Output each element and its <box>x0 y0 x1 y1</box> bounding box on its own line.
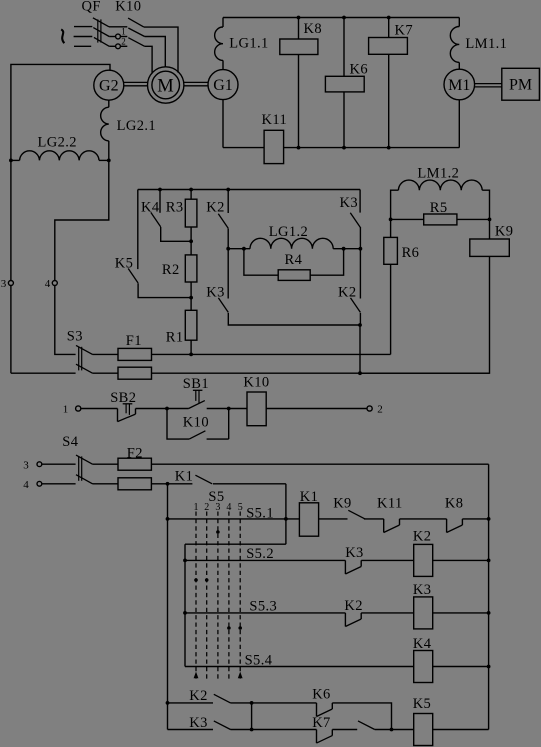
AC supply tilde symbol <box>61 29 64 43</box>
node left rail top <box>166 482 170 486</box>
svg-text:K3: K3 <box>206 285 225 301</box>
contact K3 bottom <box>168 715 317 731</box>
svg-text:LM1.1: LM1.1 <box>465 36 507 52</box>
node R3 top <box>189 188 193 192</box>
svg-text:K4: K4 <box>141 199 160 215</box>
relay coil K10 <box>243 375 269 426</box>
node S5.2 right rail <box>487 559 491 563</box>
svg-text:3: 3 <box>215 502 220 513</box>
svg-text:LM1.2: LM1.2 <box>417 165 459 181</box>
svg-text:4: 4 <box>226 502 231 513</box>
load machine PM <box>502 68 540 100</box>
inductor LM1.1 <box>450 18 507 70</box>
svg-text:K2: K2 <box>206 199 225 215</box>
terminal 1 tap on phase L2 <box>109 27 127 39</box>
contactor K11 <box>262 112 288 164</box>
svg-text:G2: G2 <box>99 78 119 95</box>
fuse F2 lower <box>93 478 193 490</box>
svg-text:S3: S3 <box>67 329 83 345</box>
inductor LG1.2 <box>228 224 360 249</box>
drive motor M <box>148 67 184 103</box>
node K2 top <box>226 188 230 192</box>
svg-text:S5.3: S5.3 <box>249 598 277 614</box>
svg-text:K2: K2 <box>344 598 363 614</box>
svg-text:K9: K9 <box>333 496 352 512</box>
pushbutton SB2 <box>110 390 136 422</box>
node R4 right <box>342 247 346 251</box>
svg-text:K4: K4 <box>413 636 432 652</box>
svg-text:M1: M1 <box>448 77 470 94</box>
node K10 branch right <box>227 407 231 411</box>
svg-text:K1: K1 <box>175 468 194 484</box>
svg-text:3: 3 <box>23 459 29 471</box>
fuse F1 lower <box>11 333 490 379</box>
svg-text:R6: R6 <box>402 245 420 261</box>
svg-text:K8: K8 <box>445 496 464 512</box>
wire terminal 4 to switch S3 <box>55 286 76 355</box>
S5 left bracket <box>184 544 186 666</box>
contactor K7 <box>369 18 413 148</box>
wire SB1 to K10 coil <box>207 408 247 410</box>
svg-text:LG1.2: LG1.2 <box>269 224 308 240</box>
svg-text:S5.1: S5.1 <box>246 505 274 521</box>
svg-text:K11: K11 <box>377 496 403 512</box>
terminal 2 control <box>367 404 383 416</box>
node top bus K6 <box>342 16 346 20</box>
wire terminal 3 to S4 <box>42 463 76 465</box>
contactor K8 <box>280 18 322 148</box>
svg-text:LG2.2: LG2.2 <box>38 134 77 150</box>
relay coil K4 <box>413 636 489 682</box>
contact K3 lower-left <box>206 249 360 325</box>
node K4 top <box>158 188 162 192</box>
wire S5 feed to bracket <box>185 543 286 545</box>
svg-text:F2: F2 <box>127 445 143 461</box>
link K2 row to K3 row <box>251 703 253 730</box>
row S5.3 wire <box>185 598 345 614</box>
wire G2 top to left rail <box>11 64 110 280</box>
svg-text:K7: K7 <box>312 715 331 731</box>
svg-text:K3: K3 <box>340 195 359 211</box>
svg-text:K8: K8 <box>304 21 323 37</box>
resistor R2 <box>162 241 197 297</box>
inductor LG2.2 <box>11 134 109 160</box>
bottom armature bus <box>223 147 459 149</box>
svg-text:K6: K6 <box>350 62 369 78</box>
node LG2.2 left <box>9 159 13 163</box>
svg-text:PM: PM <box>509 77 532 94</box>
contact K2 NC row3 <box>344 598 413 627</box>
shaft coupling M1-PM <box>475 84 502 87</box>
contactor K10 main contacts <box>115 0 144 46</box>
svg-text:R5: R5 <box>430 200 448 216</box>
node top bus K7 <box>387 16 391 20</box>
shaft coupling G2-M <box>124 82 148 85</box>
shaft coupling M-G1 <box>184 82 208 85</box>
terminal 4 lower <box>23 479 42 491</box>
node S5.1 feed <box>284 517 288 521</box>
svg-text:K5: K5 <box>115 256 134 272</box>
relay coil K3 <box>413 582 489 629</box>
node left rail S5.1 <box>166 517 170 521</box>
contact K4 <box>141 190 191 242</box>
left rail below terminal 3 <box>10 286 12 374</box>
generator G2 <box>94 70 124 100</box>
contact K9 NO <box>333 496 384 519</box>
circuit breaker QF <box>82 0 110 46</box>
svg-text:R1: R1 <box>166 330 184 346</box>
contact K5 <box>115 190 191 298</box>
node K2-K3 link bottom <box>250 728 254 732</box>
field circuit top wire <box>138 189 360 191</box>
node bottom bus K7 <box>387 146 391 150</box>
svg-text:G1: G1 <box>213 77 233 94</box>
row S5.4 wire <box>185 652 414 668</box>
S5 closure mark position 3 row 1 <box>216 530 220 534</box>
node LG1.2 right <box>359 247 363 251</box>
svg-text:R2: R2 <box>162 262 180 278</box>
resistor R5 <box>391 200 490 225</box>
switch S3 <box>67 329 93 374</box>
node R5 right <box>488 218 492 222</box>
svg-text:4: 4 <box>45 278 51 290</box>
node R2-R1 <box>189 296 193 300</box>
switch S4 <box>62 434 92 484</box>
contactor K6 <box>325 18 368 148</box>
relay coil K1 <box>299 489 347 536</box>
node S5.4 right rail <box>487 665 491 669</box>
svg-text:3: 3 <box>1 278 7 290</box>
contact K2 upper-left <box>206 190 228 249</box>
wire K10 to motor M phase 3 <box>145 46 153 73</box>
generator G1 <box>208 70 238 100</box>
S5 position dashed lines <box>196 512 240 682</box>
svg-text:K2: K2 <box>338 285 357 301</box>
top armature bus <box>223 17 459 19</box>
inductor LG1.1 <box>215 18 269 70</box>
node S5.1 right rail <box>487 517 491 521</box>
resistor R3 <box>166 190 197 242</box>
resistor R6 <box>384 219 420 354</box>
three-phase supply line L2 <box>74 36 93 38</box>
wire terminal 1 to SB2 <box>81 408 118 410</box>
contact K6 NC <box>312 686 391 729</box>
node K2-K3 bottom <box>358 323 362 327</box>
svg-text:1: 1 <box>63 404 69 416</box>
inductor LM1.2 <box>391 165 490 219</box>
svg-text:F1: F1 <box>126 333 142 349</box>
node LG1.2 left <box>226 247 230 251</box>
contactor K9 <box>360 219 513 373</box>
node left rail K2 row <box>166 701 170 705</box>
contact K3 upper-right <box>340 190 361 249</box>
node S5.3 right rail <box>487 611 491 615</box>
terminal 3 on left rail <box>1 278 14 290</box>
wire K1 to S5 feed <box>285 484 287 544</box>
row S5.1 wire <box>168 505 300 521</box>
fuse F2 upper <box>93 445 489 470</box>
wire QF to K10 phase 1 <box>109 26 127 28</box>
three-phase supply line L3 <box>74 45 91 47</box>
node LG2.2 right <box>107 159 111 163</box>
S5 closure mark position 4 row 3 <box>227 626 231 630</box>
contact K11 NC <box>377 496 447 533</box>
left rail <box>167 484 169 730</box>
S5 position numbers <box>194 502 243 513</box>
terminal 2 tap on phase L3 <box>109 36 127 48</box>
node bracket S5.3 <box>183 611 187 615</box>
S5 closure mark position 2 row 2 <box>205 578 209 582</box>
S5 closure mark position 1 row 2 <box>194 578 198 582</box>
node top bus K8 <box>297 16 301 20</box>
relay coil K2 <box>413 528 489 576</box>
node bracket S5.2 <box>183 559 187 563</box>
contact K2 lower-right <box>338 249 360 325</box>
svg-text:QF: QF <box>82 0 101 15</box>
wire SB2 to SB1 <box>136 408 189 410</box>
svg-text:4: 4 <box>23 479 29 491</box>
resistor R4 <box>244 249 344 281</box>
svg-text:LG1.1: LG1.1 <box>229 36 268 52</box>
svg-text:LG2.1: LG2.1 <box>117 118 156 134</box>
contact K10 self-holding <box>167 409 229 440</box>
node R4 left <box>242 247 246 251</box>
contact K2 bottom <box>168 688 317 704</box>
wire K10 coil to terminal 2 <box>266 408 367 410</box>
contact K1 <box>175 468 286 484</box>
svg-text:K3: K3 <box>189 715 208 731</box>
svg-text:K2: K2 <box>413 528 432 544</box>
svg-text:K9: K9 <box>495 224 514 240</box>
resistor R1 <box>166 298 197 355</box>
svg-text:K6: K6 <box>312 686 331 702</box>
svg-text:K5: K5 <box>413 696 432 712</box>
S5 arrow position 1 <box>194 672 199 679</box>
svg-text:R3: R3 <box>166 199 184 215</box>
wire K10 to motor M phase 2 <box>145 37 166 68</box>
svg-text:1: 1 <box>121 27 126 37</box>
node R1 bottom <box>189 353 193 357</box>
svg-text:SB1: SB1 <box>183 376 209 392</box>
svg-text:S5.4: S5.4 <box>245 652 273 668</box>
svg-text:K1: K1 <box>300 489 319 505</box>
wire G1 bottom <box>222 100 224 148</box>
svg-text:K2: K2 <box>189 688 208 704</box>
svg-text:K10: K10 <box>243 375 269 391</box>
svg-text:2: 2 <box>204 502 209 513</box>
fuse F1 upper <box>93 348 391 360</box>
contact K3 NC row2 <box>345 545 414 574</box>
wire M1 bottom <box>458 100 460 148</box>
contact K7 NC <box>312 715 357 743</box>
wire field block to lower fuse line <box>359 325 361 373</box>
S5 arrow position 5 <box>238 672 243 679</box>
svg-text:K7: K7 <box>395 22 414 38</box>
svg-text:K3: K3 <box>413 582 432 598</box>
node on lower fuse line <box>358 371 362 375</box>
node K5 row <box>390 728 394 732</box>
S5 closure mark position 5 row 3 <box>238 626 242 630</box>
node bottom bus K6 <box>342 146 346 150</box>
svg-text:K3: K3 <box>345 545 364 561</box>
inductor LG2.1 <box>101 100 156 160</box>
node K10 branch left <box>165 407 169 411</box>
svg-text:SB2: SB2 <box>110 390 136 406</box>
svg-text:2: 2 <box>121 36 126 46</box>
motor M1 <box>444 69 475 100</box>
pushbutton SB1 <box>183 376 209 409</box>
node K2-K3 link top <box>250 701 254 705</box>
svg-text:S5.2: S5.2 <box>246 546 274 562</box>
right supply rail <box>488 464 490 729</box>
contact unnamed series with K7 <box>358 721 392 730</box>
wire K10 to motor M phase 1 <box>144 27 178 73</box>
terminal 3 lower <box>23 459 42 471</box>
row S5.2 wire <box>185 546 345 562</box>
svg-text:S4: S4 <box>62 434 78 450</box>
node bottom bus K8 <box>297 146 301 150</box>
node R3-R2 <box>189 239 193 243</box>
relay coil K5 <box>392 696 489 746</box>
svg-text:K11: K11 <box>262 112 288 128</box>
wire LG2 junction to terminal 4 <box>55 160 109 280</box>
svg-text:K10: K10 <box>115 0 141 15</box>
svg-text:2: 2 <box>377 404 383 416</box>
terminal 4 <box>45 278 58 290</box>
wire terminal 4 to S4 <box>42 483 76 485</box>
svg-text:5: 5 <box>238 502 243 513</box>
contact K8 NC <box>445 496 489 533</box>
svg-text:1: 1 <box>194 502 199 513</box>
node R5 left <box>389 218 393 222</box>
three-phase supply line L1 <box>74 26 92 28</box>
svg-text:M: M <box>157 76 174 96</box>
svg-text:R4: R4 <box>285 252 303 268</box>
terminal 1 control <box>63 404 81 416</box>
svg-text:K10: K10 <box>183 415 209 431</box>
